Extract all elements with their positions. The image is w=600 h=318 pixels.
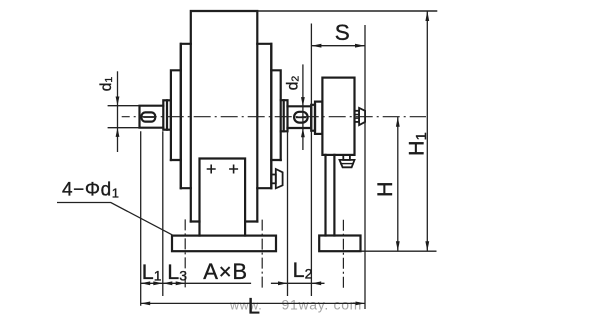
arrowhead L right [356, 302, 366, 306]
plus mark left [208, 165, 215, 172]
oil plug lug cap [276, 169, 283, 188]
side knob neck thread lines [355, 115, 360, 119]
housing block C (outer) [171, 70, 281, 160]
housing block B (middle) [181, 44, 271, 188]
d2 dimension line [302, 64, 304, 150]
base plate left unit [172, 236, 276, 252]
output bearing cap flange line [283, 100, 285, 131]
S extension right [364, 25, 366, 309]
side drain plug neck [343, 155, 350, 160]
svg-text:H: H [373, 181, 397, 197]
L2 left extension [287, 131, 289, 296]
L1 right extension [162, 131, 164, 296]
input bearing cap flange line [166, 100, 168, 129]
svg-text:91way.: 91way. [282, 297, 330, 313]
side body [322, 78, 354, 155]
housing block A bottom edges [191, 220, 257, 222]
S extension left / L2 right extension [310, 24, 312, 297]
input bearing cap [163, 100, 171, 129]
output shaft keyway line [297, 116, 305, 118]
centerline main horizontal [122, 116, 426, 118]
arrowhead L1 left [141, 281, 151, 285]
svg-text:L: L [248, 294, 260, 318]
arrowhead H down [396, 241, 400, 251]
side column [326, 155, 335, 236]
arrowhead L left [141, 302, 151, 306]
arrowhead d2 up [301, 128, 305, 137]
side drain plug bowl [340, 160, 355, 167]
d1 extension lines [108, 106, 140, 128]
arrowhead S left [311, 44, 321, 48]
output shaft keyway obround [294, 112, 308, 123]
oil plug lug neck [271, 175, 276, 184]
arrowhead H1 up [425, 11, 429, 21]
arrowhead AxB right outside [278, 281, 288, 285]
leader line 4-phi-d1 [57, 203, 174, 236]
arrowhead L1 right [153, 281, 163, 285]
svg-text:A×B: A×B [203, 259, 248, 284]
svg-text:S: S [335, 20, 350, 45]
arrowhead d2 down [301, 97, 305, 106]
bolt hole centerline left [184, 219, 186, 289]
input shaft keyway line [144, 116, 153, 118]
side hub step 1 [311, 105, 315, 131]
output shaft [288, 106, 312, 128]
chain dimension line L1 L3 AxB [141, 282, 325, 284]
side base plate [319, 236, 360, 252]
top extension line [191, 10, 437, 12]
side drain plug line [341, 163, 353, 165]
housing block B bottom edges [181, 187, 271, 189]
housing block B side walls through shaft zone [181, 44, 271, 188]
input shaft [140, 106, 164, 128]
H1 dimension line [426, 11, 428, 251]
L1 left extension [140, 131, 142, 305]
pedestal foot [200, 159, 246, 236]
arrowhead d1 down [116, 97, 120, 106]
input shaft keyway obround [142, 112, 156, 121]
arrowhead L2 right outside [312, 281, 322, 285]
S dimension line [311, 45, 365, 47]
output bearing cap [281, 100, 288, 131]
arrowhead S right [355, 44, 365, 48]
plus mark right [230, 165, 237, 172]
watermark [229, 297, 362, 313]
arrowhead H1 down [425, 241, 429, 251]
arrowhead d1 up [116, 128, 120, 137]
housing block C bottom edges [171, 159, 281, 161]
arrowhead L3 left [163, 281, 173, 285]
side plate centerline [342, 220, 344, 290]
side knob neck [355, 111, 360, 122]
arrowhead H up [396, 117, 400, 127]
side hub step 2 [315, 102, 322, 134]
arrowhead L3 right [176, 281, 186, 285]
bottom dimension line L [141, 302, 365, 304]
d1 dimension line [117, 71, 119, 152]
bolt hole centerline right [261, 220, 263, 289]
bottom extension line H [361, 250, 437, 252]
svg-text:4−Φd1: 4−Φd1 [62, 180, 120, 201]
side knob cap [359, 108, 365, 125]
H dimension line [397, 117, 399, 252]
housing block A (inner/top) [191, 11, 257, 222]
